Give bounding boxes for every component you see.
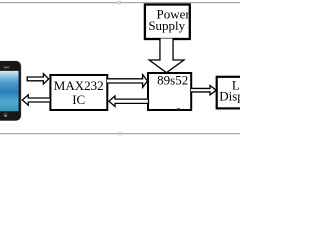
- svg-text:IC: IC: [72, 92, 85, 107]
- svg-text:Display: Display: [219, 89, 240, 104]
- svg-text:MAX232: MAX232: [54, 78, 104, 93]
- svg-text:Supply: Supply: [148, 18, 185, 33]
- svg-text:89s52: 89s52: [157, 73, 188, 88]
